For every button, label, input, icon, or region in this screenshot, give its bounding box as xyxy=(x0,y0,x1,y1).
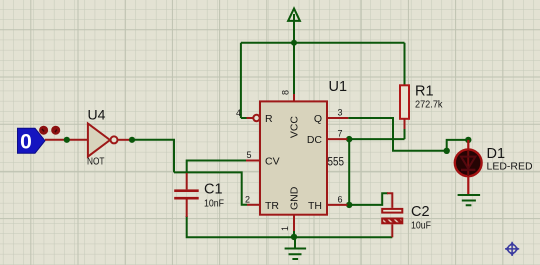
wire C1 lower to ground rail xyxy=(187,216,294,237)
junction node NOT input xyxy=(64,137,70,143)
svg-text:8: 8 xyxy=(281,90,291,95)
pin 7 DC xyxy=(327,138,347,140)
svg-text:7: 7 xyxy=(338,129,343,139)
origin marker xyxy=(505,242,519,256)
junction node TH xyxy=(346,202,352,208)
wire DC to R1 bottom xyxy=(347,129,404,139)
svg-text:LED-RED: LED-RED xyxy=(487,161,534,173)
capacitor C2 xyxy=(382,193,431,237)
pin 4 R xyxy=(247,115,260,121)
wire GND pin1 to rail xyxy=(293,230,295,237)
pin 6 TH xyxy=(327,204,347,206)
wire NOT output to corner xyxy=(132,140,174,173)
wire Q output xyxy=(348,118,446,151)
svg-text:10nF: 10nF xyxy=(204,198,224,210)
LED D1 xyxy=(455,140,533,194)
wire DC to TH vertical xyxy=(348,139,350,205)
power rail VCC top xyxy=(241,9,405,119)
svg-text:R1: R1 xyxy=(415,84,434,100)
555 timer U1 xyxy=(236,79,348,231)
wire trigger net to TR pin xyxy=(174,172,247,204)
wire CV branch xyxy=(187,161,246,173)
svg-text:C2: C2 xyxy=(411,204,430,220)
pin 3 Q xyxy=(327,117,348,119)
svg-text:272.7k: 272.7k xyxy=(415,98,443,110)
svg-text:R: R xyxy=(265,113,273,125)
junction node NOT output xyxy=(129,137,135,143)
wire VCC pin8 xyxy=(293,43,295,95)
svg-text:TR: TR xyxy=(265,200,279,212)
svg-text:2: 2 xyxy=(245,194,250,204)
inverter U4 xyxy=(87,107,132,168)
svg-text:5: 5 xyxy=(247,150,252,160)
pin 8 VCC xyxy=(293,94,295,101)
junction node power xyxy=(291,40,297,46)
junction node GND rail xyxy=(291,234,297,240)
pin 1 GND xyxy=(293,215,295,231)
svg-text:GND: GND xyxy=(289,186,301,210)
junction node LED corner xyxy=(444,148,450,154)
ground symbol under LED xyxy=(458,195,481,205)
wire TH to C2 top xyxy=(347,193,388,205)
wire logicstate to NOT input xyxy=(45,139,88,141)
svg-text:TH: TH xyxy=(308,200,322,212)
logicstate input P1 xyxy=(18,126,61,154)
svg-text:0: 0 xyxy=(20,131,32,154)
svg-text:555: 555 xyxy=(328,157,345,169)
svg-text:10uF: 10uF xyxy=(411,220,431,232)
svg-text:U1: U1 xyxy=(329,79,348,95)
ground rail to C2 xyxy=(294,236,392,238)
resistor R1 xyxy=(400,84,443,130)
pin 5 CV xyxy=(246,160,260,162)
junction node LED top xyxy=(465,137,471,143)
capacitor C1 xyxy=(174,173,224,217)
wire LED jog xyxy=(447,140,469,151)
svg-text:6: 6 xyxy=(338,194,343,204)
junction node DC xyxy=(346,136,352,142)
svg-text:DC: DC xyxy=(307,134,323,146)
pin 2 TR xyxy=(247,204,260,206)
svg-text:4: 4 xyxy=(236,108,241,118)
svg-text:C1: C1 xyxy=(204,182,223,198)
wire pin4 from rail xyxy=(241,117,247,119)
svg-text:Q: Q xyxy=(314,113,322,125)
svg-text:VCC: VCC xyxy=(289,116,301,139)
svg-text:NOT: NOT xyxy=(87,156,105,168)
svg-text:1: 1 xyxy=(280,226,290,231)
ground symbol under 555 xyxy=(285,237,307,259)
svg-text:U4: U4 xyxy=(88,107,106,123)
svg-text:CV: CV xyxy=(265,156,280,168)
svg-text:3: 3 xyxy=(338,108,343,118)
